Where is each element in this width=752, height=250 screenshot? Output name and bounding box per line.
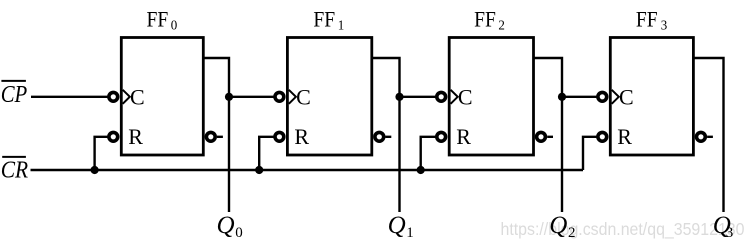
svg-text:FF: FF: [474, 6, 496, 31]
svg-text:FF: FF: [313, 6, 335, 31]
label Q2: [549, 212, 575, 241]
wire FF0 Q output to node Q0: [203, 58, 229, 212]
FF3 clock edge indicator: [612, 90, 619, 104]
svg-text:3: 3: [726, 225, 734, 241]
FF3 inverted output bubble: [697, 132, 706, 141]
FF1 inverted output stub: [386, 136, 392, 138]
wire node Q1 to FF2 C input: [400, 96, 437, 98]
label Q1: [388, 212, 414, 241]
FF2 clock edge indicator: [451, 90, 458, 104]
svg-text:3: 3: [661, 19, 668, 34]
FF1 inverted output bubble: [375, 132, 384, 141]
FF0 clock input bubble: [109, 92, 118, 101]
FF3 clock input bubble: [598, 92, 607, 101]
FF3 reset input bubble: [598, 132, 607, 141]
label FF1: [313, 6, 344, 33]
svg-text:https://blog.csdn.net/qq_35912: https://blog.csdn.net/qq_35912130: [501, 219, 745, 240]
flip-flop FF0 box: [121, 38, 203, 156]
svg-text:R: R: [294, 124, 309, 149]
svg-text:CP: CP: [1, 82, 28, 108]
junction node Q2: [558, 93, 566, 101]
FF0 reset input bubble: [109, 132, 118, 141]
FF2 reset input bubble: [437, 132, 446, 141]
wire CR junction up to FF1 R input: [259, 137, 274, 170]
svg-text:0: 0: [235, 225, 243, 241]
wire CR junction up to FF0 R input: [95, 137, 109, 170]
svg-text:C: C: [458, 85, 473, 110]
svg-text:Q: Q: [217, 212, 235, 239]
label FF3: [636, 6, 667, 33]
svg-text:1: 1: [406, 225, 414, 241]
label FF0: [147, 6, 178, 33]
wire FF1 Q output to node Q1: [372, 58, 400, 212]
label CP (clock pulse input, active-low overbar): [1, 81, 28, 108]
svg-text:0: 0: [171, 19, 178, 34]
FF0 inverted output bubble: [206, 132, 215, 141]
svg-text:C: C: [619, 85, 634, 110]
FF1 reset input bubble: [275, 132, 284, 141]
svg-text:R: R: [128, 124, 143, 149]
svg-text:2: 2: [568, 225, 576, 241]
flip-flop FF3 box: [610, 38, 693, 156]
svg-text:R: R: [617, 124, 632, 149]
label CR (clear input, active-low overbar): [1, 157, 29, 184]
FF2 inverted output bubble: [537, 132, 546, 141]
junction node Q0: [225, 93, 233, 101]
label FF2: [474, 6, 505, 33]
svg-text:C: C: [130, 85, 145, 110]
junction CR to FF1 R: [255, 166, 263, 174]
svg-text:FF: FF: [147, 6, 169, 31]
FF0 inverted output stub: [217, 136, 223, 138]
wire FF3 Q output down to label Q3: [693, 58, 723, 212]
svg-text:1: 1: [338, 19, 345, 34]
svg-text:R: R: [456, 124, 471, 149]
flip-flop FF1 box: [287, 38, 371, 156]
wire node Q0 to FF1 C input: [229, 96, 274, 98]
wire FF2 Q output to node Q2: [534, 58, 563, 212]
wire CR junction up to FF2 R input: [421, 137, 436, 170]
FF3 inverted output stub: [707, 136, 713, 138]
FF0 clock edge indicator: [123, 90, 130, 104]
FF2 clock input bubble: [437, 92, 446, 101]
wire CR corner up to FF3 R input: [583, 137, 597, 170]
label Q3: [713, 212, 734, 241]
label Q0: [217, 212, 243, 241]
junction CR to FF2 R: [417, 166, 425, 174]
svg-text:2: 2: [498, 19, 505, 34]
svg-text:Q: Q: [388, 212, 406, 239]
wire node Q2 to FF3 C input: [562, 96, 597, 98]
svg-text:Q: Q: [549, 212, 567, 239]
wire CR bus along bottom: [31, 169, 584, 171]
FF1 clock input bubble: [275, 92, 284, 101]
junction CR to FF0 R: [91, 166, 99, 174]
FF2 inverted output stub: [547, 136, 553, 138]
flip-flop FF2 box: [449, 38, 533, 156]
wire CP to FF0 C input: [31, 96, 109, 98]
FF1 clock edge indicator: [289, 90, 296, 104]
junction node Q1: [395, 93, 403, 101]
svg-text:FF: FF: [636, 6, 658, 31]
svg-text:C: C: [296, 85, 311, 110]
svg-text:CR: CR: [1, 158, 29, 184]
